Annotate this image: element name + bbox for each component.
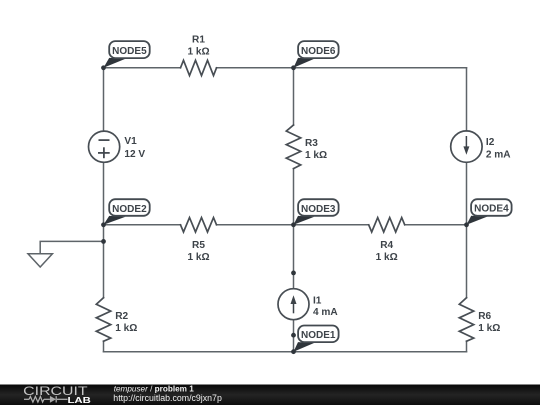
svg-text:I1: I1 bbox=[313, 295, 322, 306]
svg-text:I2: I2 bbox=[486, 137, 495, 148]
svg-text:1 kΩ: 1 kΩ bbox=[376, 252, 398, 263]
svg-text:NODE2: NODE2 bbox=[112, 204, 147, 215]
svg-text:NODE4: NODE4 bbox=[474, 204, 509, 215]
svg-text:NODE3: NODE3 bbox=[301, 204, 336, 215]
svg-text:LAB: LAB bbox=[68, 395, 91, 405]
svg-text:R2: R2 bbox=[115, 311, 128, 322]
svg-text:1 kΩ: 1 kΩ bbox=[115, 323, 137, 334]
svg-text:R1: R1 bbox=[192, 34, 205, 45]
svg-text:1 kΩ: 1 kΩ bbox=[478, 323, 500, 334]
svg-text:1 kΩ: 1 kΩ bbox=[187, 252, 209, 263]
svg-text:1 kΩ: 1 kΩ bbox=[187, 47, 209, 58]
svg-text:R5: R5 bbox=[192, 240, 205, 251]
svg-text:12 V: 12 V bbox=[124, 149, 145, 160]
svg-text:NODE5: NODE5 bbox=[112, 46, 147, 57]
svg-text:V1: V1 bbox=[124, 136, 137, 147]
svg-text:1 kΩ: 1 kΩ bbox=[305, 150, 327, 161]
svg-text:4 mA: 4 mA bbox=[313, 307, 338, 318]
svg-text:R4: R4 bbox=[380, 240, 393, 251]
svg-text:NODE6: NODE6 bbox=[301, 46, 336, 57]
svg-text:R3: R3 bbox=[305, 138, 318, 149]
svg-text:http://circuitlab.com/c9jxn7p: http://circuitlab.com/c9jxn7p bbox=[113, 393, 222, 403]
svg-text:NODE1: NODE1 bbox=[301, 330, 336, 341]
svg-text:R6: R6 bbox=[478, 311, 491, 322]
svg-text:2 mA: 2 mA bbox=[486, 150, 511, 161]
